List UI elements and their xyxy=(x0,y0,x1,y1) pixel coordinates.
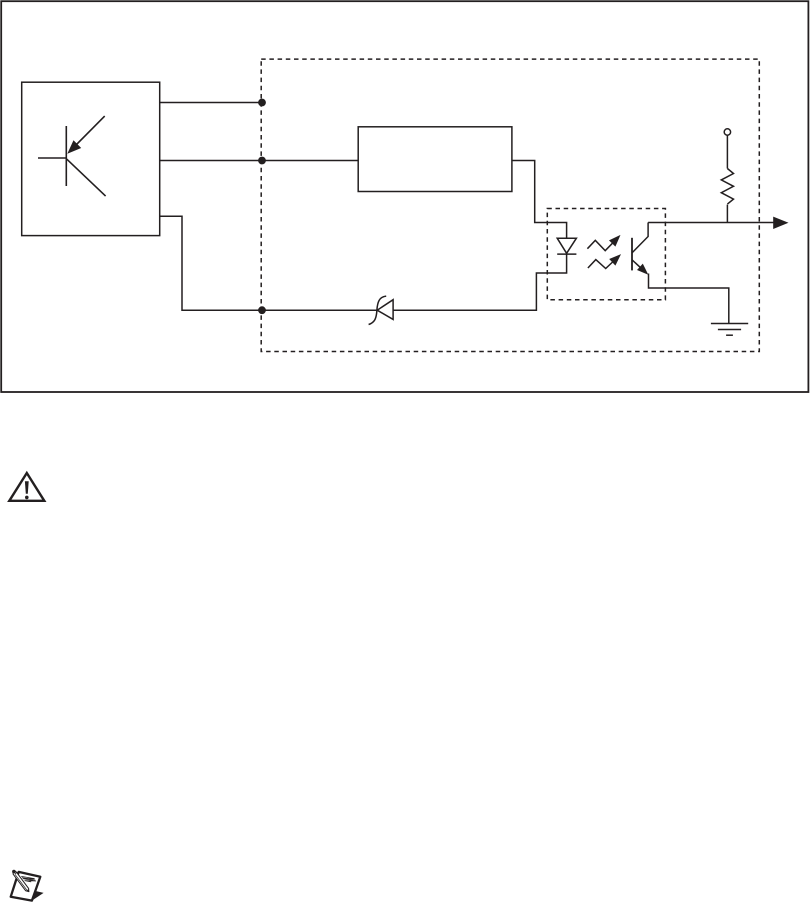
phototransistor Q2 xyxy=(632,223,648,275)
resistor R2 (pull-up) xyxy=(721,169,733,205)
figure frame xyxy=(1,1,808,392)
node B xyxy=(258,157,266,165)
warning icon xyxy=(9,473,44,501)
light arrow 2 xyxy=(588,254,621,268)
wire: bottom lead from device box down to node C xyxy=(160,216,262,310)
transistor Q1 (external sinking output device) xyxy=(38,116,106,196)
wire: node C to diode D2 anode xyxy=(262,309,377,311)
optocoupler package U1 (dashed) xyxy=(547,209,665,300)
external device box xyxy=(22,82,160,235)
terminal (pull-up supply) xyxy=(724,129,730,135)
diode D2 (curved-bar protection diode) xyxy=(369,296,394,324)
wire: from R1 output down to LED anode xyxy=(512,161,567,239)
light arrow 1 xyxy=(587,235,620,251)
wire: Q2 emitter to ground run xyxy=(649,274,729,324)
wire: top lead from device box to node A xyxy=(160,102,262,104)
resistor block R1 xyxy=(358,127,512,192)
module boundary (dashed) xyxy=(261,59,759,351)
wire: R2 to output line xyxy=(726,205,728,223)
node C xyxy=(258,306,266,314)
wire: terminal to resistor R2 xyxy=(726,135,728,168)
wire: middle lead from device box through node B to resistor block xyxy=(160,160,358,162)
ground xyxy=(711,324,748,336)
wire: output line from Q2 collector xyxy=(648,222,773,224)
LED D1 (optocoupler emitter) xyxy=(557,238,576,254)
note icon xyxy=(11,870,44,901)
wire: diode D2 cathode to LED cathode xyxy=(393,254,566,310)
output arrow xyxy=(773,217,788,229)
node A xyxy=(258,99,266,107)
